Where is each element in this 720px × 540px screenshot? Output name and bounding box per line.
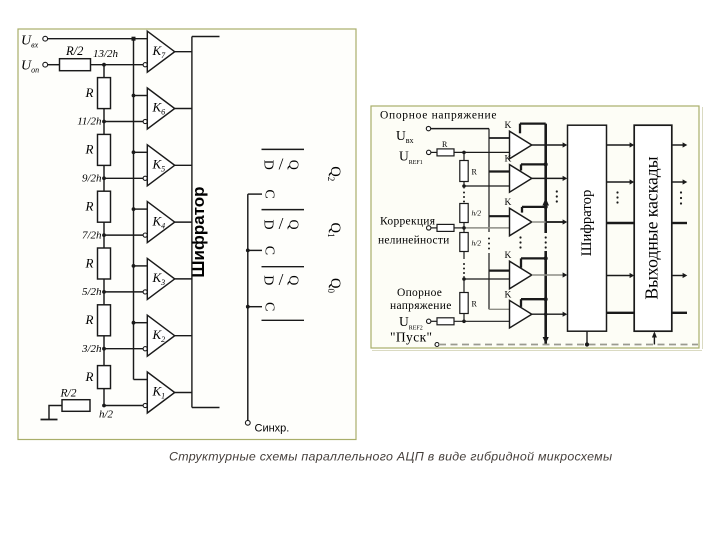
resistor h/2 lower <box>460 233 468 252</box>
wire bus stub to K5 <box>134 151 148 153</box>
svg-text:Опорное напряжение: Опорное напряжение <box>380 110 497 122</box>
comparator K (right 2) <box>510 165 532 193</box>
comparator K2 <box>147 315 174 356</box>
svg-text:R/2: R/2 <box>65 44 83 58</box>
svg-text:/: / <box>279 214 284 233</box>
svg-text:D: D <box>261 275 276 285</box>
strobe line comparator 1 <box>520 122 546 124</box>
svg-text:R/2: R/2 <box>60 388 77 400</box>
resistor R (ladder 2) <box>98 134 111 165</box>
wire ladder node 3 to comparator <box>104 291 143 293</box>
bus junction dot <box>132 94 136 98</box>
ellipsis dots <box>616 191 618 193</box>
terminal Uref1 <box>427 150 431 154</box>
svg-text:C: C <box>262 302 277 311</box>
wire ladder node to K2 input <box>464 185 510 187</box>
bus junction dot <box>132 207 136 211</box>
bus junction dot <box>132 264 136 268</box>
output arrow <box>672 222 687 224</box>
inverting input circle K2 <box>143 347 147 351</box>
wire ladder node to K4 input <box>464 278 510 280</box>
svg-text:5/2h: 5/2h <box>82 286 102 298</box>
resistor R (Uref2) <box>437 318 454 325</box>
node 3 junction dot <box>102 290 106 294</box>
svg-text:3/2h: 3/2h <box>81 343 102 355</box>
svg-text:R: R <box>85 85 94 100</box>
output stages bottom tap with up arrow <box>653 333 655 345</box>
wire K5 output <box>175 164 192 166</box>
wire Uvx to bus <box>431 128 489 130</box>
terminal Uvx (right diagram) <box>426 126 430 130</box>
output arrow <box>672 312 687 314</box>
wire Uref1 node to K1 inverting input <box>454 151 510 153</box>
svg-text:h/2: h/2 <box>472 239 482 248</box>
wire bus stub to K4 <box>134 208 148 210</box>
wire Uvx vertical bus <box>133 39 135 380</box>
svg-text:Структурные схемы параллельног: Структурные схемы параллельного АЦП в ви… <box>169 450 612 464</box>
comparator K (right 1) <box>510 131 532 159</box>
wire K4 output <box>175 221 192 223</box>
comparator K7 <box>147 31 174 72</box>
strobe bus (bold vertical) <box>544 124 547 233</box>
svg-text:/: / <box>279 270 284 289</box>
inverting input circle K4 <box>143 233 147 237</box>
wire bus stub to K6 <box>134 95 148 97</box>
node 1 junction dot <box>102 404 106 408</box>
inverting input circle K6 <box>143 119 147 123</box>
wire K7 output <box>175 51 192 53</box>
strobe line comparator 3 <box>522 206 546 208</box>
wire Uop to resistor R/2 <box>48 64 60 66</box>
wire K1 output <box>175 392 192 394</box>
output arrow <box>672 144 683 146</box>
terminal Sinhr <box>245 420 250 425</box>
comparator input stubs from Uvx bus <box>489 137 510 139</box>
bus junction dot <box>132 321 136 325</box>
wire clock bus vertical <box>247 194 249 420</box>
resistor R (ladder 6) <box>98 366 111 389</box>
wire comparator 2 output <box>532 177 563 179</box>
strobe line comparator 4 <box>521 257 546 259</box>
svg-text:13/2h: 13/2h <box>93 48 119 60</box>
svg-text:9/2h: 9/2h <box>82 173 102 185</box>
svg-text:K: K <box>505 198 512 208</box>
strobe line comparator 2 <box>521 163 546 165</box>
node 4 junction dot <box>102 233 106 237</box>
svg-text:11/2h: 11/2h <box>77 116 102 128</box>
bus junction dot <box>132 150 136 154</box>
output stages box <box>634 125 672 331</box>
svg-text:h/2: h/2 <box>99 409 114 421</box>
ellipsis dots <box>680 191 682 193</box>
svg-text:Шифратор: Шифратор <box>189 186 208 277</box>
wire encoder to output stages <box>607 275 631 277</box>
node junction on bus at Uvx line <box>132 37 136 41</box>
svg-text:R: R <box>85 312 94 327</box>
wire ladder node 1 to comparator <box>104 405 143 407</box>
svg-text:Q: Q <box>286 160 301 170</box>
comparator K3 <box>147 258 174 299</box>
ellipsis dots <box>519 236 521 238</box>
inverting input circle K5 <box>143 176 147 180</box>
svg-text:K: K <box>505 290 512 300</box>
wire comparator 3 output <box>532 221 563 223</box>
wire K2 output <box>175 335 192 337</box>
svg-text:C: C <box>262 246 277 255</box>
svg-text:R: R <box>85 369 94 384</box>
wire encoder to output stages <box>607 144 631 146</box>
ellipsis dots <box>556 190 558 192</box>
right figure frame <box>371 106 699 348</box>
svg-text:Выходные каскады: Выходные каскады <box>642 156 662 299</box>
svg-text:/: / <box>279 154 284 173</box>
node 5 junction dot <box>102 176 106 180</box>
comparator K1 <box>147 372 174 413</box>
wire C3 output black segment <box>546 221 563 223</box>
strobe line comparator 5 <box>521 298 546 300</box>
svg-text:Q: Q <box>286 220 301 230</box>
comparator K6 <box>147 88 174 129</box>
resistor R (ladder 1) <box>98 78 111 109</box>
svg-text:напряжение: напряжение <box>390 300 452 312</box>
wire correction node to K3 input (grey) <box>464 227 510 229</box>
flip-flop separator line <box>262 148 305 150</box>
wire to ground <box>49 406 62 420</box>
wire K6 output <box>175 108 192 110</box>
svg-text:R: R <box>442 140 448 149</box>
svg-text:"Пуск": "Пуск" <box>390 330 432 345</box>
flip-flop separator line <box>262 209 305 211</box>
svg-text:Опорное: Опорное <box>397 287 442 299</box>
resistor R/2 (top) <box>60 59 91 71</box>
comparator K4 <box>147 202 174 243</box>
encoder (Shifrator) bracket left <box>191 37 193 408</box>
resistor h/2 upper <box>460 204 468 223</box>
svg-text:R: R <box>85 142 94 157</box>
wire encoder to output stages <box>607 181 631 183</box>
left figure frame <box>18 29 356 440</box>
inverting input circle K7 <box>143 63 147 67</box>
comparator K5 <box>147 145 174 186</box>
svg-text:нелинейности: нелинейности <box>378 235 449 247</box>
svg-text:R: R <box>472 168 478 177</box>
flip-flop separator line <box>262 319 305 321</box>
resistor ladder vertical wire <box>103 65 105 406</box>
wire ladder node 5 to comparator <box>104 177 143 179</box>
comparator K (right 4) <box>510 261 532 289</box>
flip-flop separator line <box>262 266 305 268</box>
inverting input circle K1 <box>143 403 147 407</box>
svg-text:R: R <box>85 199 94 214</box>
ground symbol <box>41 419 58 421</box>
node 2 junction dot <box>102 347 106 351</box>
output arrow <box>672 181 683 183</box>
resistor R (ladder 5) <box>98 305 111 336</box>
resistor R (ladder 4) <box>98 248 111 279</box>
resistor R ladder top <box>460 161 468 182</box>
wire comparator 4 output <box>532 274 563 276</box>
svg-text:7/2h: 7/2h <box>82 229 102 241</box>
wire bus stub to K3 <box>134 265 148 267</box>
wire Uvx input bus top <box>48 38 148 40</box>
resistor R (ladder 3) <box>98 191 111 222</box>
wire encoder to output stages <box>607 312 635 314</box>
resistor R (Uref1) <box>431 151 437 153</box>
C bus junction dot <box>246 249 250 253</box>
Pusk dashed line <box>439 344 698 346</box>
Uvx bus vertical (right) <box>488 129 490 232</box>
node 6 junction dot <box>102 120 106 124</box>
Pusk terminal <box>435 343 439 347</box>
svg-text:Синхр.: Синхр. <box>255 423 290 435</box>
svg-text:K: K <box>505 251 512 261</box>
terminal Uvx <box>43 36 48 41</box>
svg-text:K: K <box>505 121 512 131</box>
svg-text:h/2: h/2 <box>472 209 482 218</box>
wire Uref2 to K5 input <box>454 320 510 322</box>
strobe bus down arrow <box>543 337 549 344</box>
svg-text:K: K <box>505 155 512 165</box>
wire ladder node 2 to comparator <box>104 348 143 350</box>
svg-text:C: C <box>262 189 277 198</box>
wire ladder node 7 to comparator <box>91 64 144 66</box>
C bus junction dot <box>246 305 250 309</box>
wire bus stub to K1 <box>134 379 148 381</box>
comparator K (right 5) <box>510 300 532 328</box>
wire ladder node 4 to comparator <box>104 234 143 236</box>
wire K3 output <box>175 278 192 280</box>
wire encoder to output stages <box>607 222 635 224</box>
svg-text:Шифратор: Шифратор <box>579 190 595 257</box>
wire bus stub to K2 <box>134 322 148 324</box>
reference ladder (right) <box>463 152 465 160</box>
encoder box (right) <box>568 125 607 331</box>
svg-text:R: R <box>472 300 478 309</box>
svg-text:R: R <box>85 255 94 270</box>
svg-text:Q: Q <box>286 275 301 285</box>
wire comparator 1 output <box>532 144 563 146</box>
terminal Uref2 <box>427 319 431 323</box>
comparator K (right 3) <box>510 208 532 236</box>
strobe bus up arrow <box>542 198 549 206</box>
svg-text:D: D <box>261 220 276 230</box>
resistor R ladder bottom <box>460 293 468 314</box>
output arrow <box>672 275 683 277</box>
wire comparator 5 output <box>532 313 563 315</box>
svg-text:D: D <box>261 160 276 170</box>
resistor R/2 (bottom) <box>62 400 90 412</box>
encoder bottom tap <box>586 331 588 344</box>
inverting input circle K3 <box>143 290 147 294</box>
wire ladder node 6 to comparator <box>104 121 143 123</box>
terminal Uop <box>43 62 48 67</box>
node 7 junction dot <box>102 63 106 67</box>
